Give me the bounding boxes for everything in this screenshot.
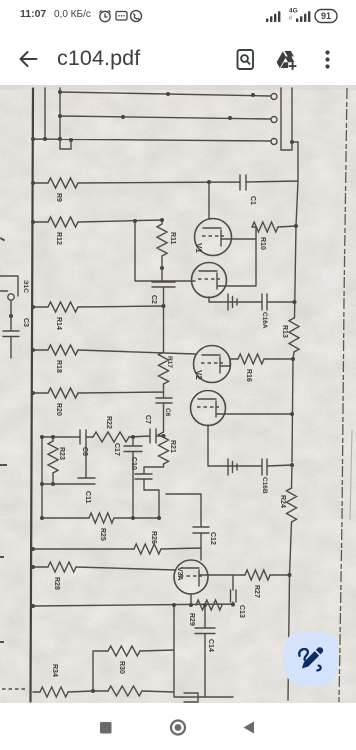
svg-text:R16: R16 [245,369,252,382]
svg-text:C11: C11 [84,491,91,504]
svg-text:C2: C2 [150,295,157,304]
svg-text:V2: V2 [194,370,203,380]
svg-text:R25: R25 [99,528,106,541]
svg-text:R28: R28 [53,577,60,590]
svg-text:V1: V1 [194,243,203,253]
svg-text:R22: R22 [105,416,112,429]
svg-text:R34: R34 [51,664,58,677]
svg-text:R17: R17 [166,356,173,368]
svg-text:4G: 4G [289,8,298,15]
svg-text:C7: C7 [144,415,151,424]
svg-text:R18: R18 [55,360,62,373]
svg-text:C13: C13 [238,605,245,618]
svg-text:R23: R23 [58,447,65,460]
svg-text:C6: C6 [164,408,171,417]
svg-text:R20: R20 [55,403,62,416]
svg-text:R24: R24 [279,495,286,508]
svg-text:R12: R12 [55,232,62,245]
svg-text:C16B: C16B [261,477,268,494]
svg-text:91: 91 [321,11,331,21]
svg-text:R21: R21 [169,440,176,453]
svg-text:C12: C12 [209,532,216,545]
svg-text:R29: R29 [188,613,195,626]
svg-text:C8: C8 [81,447,88,456]
svg-text:C16A: C16A [261,312,268,329]
svg-text:C10: C10 [130,457,137,470]
svg-text:R14: R14 [55,317,62,330]
svg-text:R9: R9 [55,193,62,202]
svg-text:R13: R13 [281,325,288,338]
svg-text:C14: C14 [207,639,214,652]
svg-text:C3: C3 [22,318,29,327]
svg-text:R27: R27 [253,585,260,598]
svg-text:C17: C17 [113,443,120,456]
svg-text:R11: R11 [169,232,176,245]
svg-text:R26: R26 [150,531,157,544]
svg-text:R30: R30 [118,661,125,674]
svg-text:ıl: ıl [289,16,292,22]
svg-text:C1: C1 [249,196,256,205]
svg-text:Э1C: Э1C [22,280,29,293]
svg-text:V3A: V3A [176,567,183,581]
svg-text:R10: R10 [259,237,266,250]
